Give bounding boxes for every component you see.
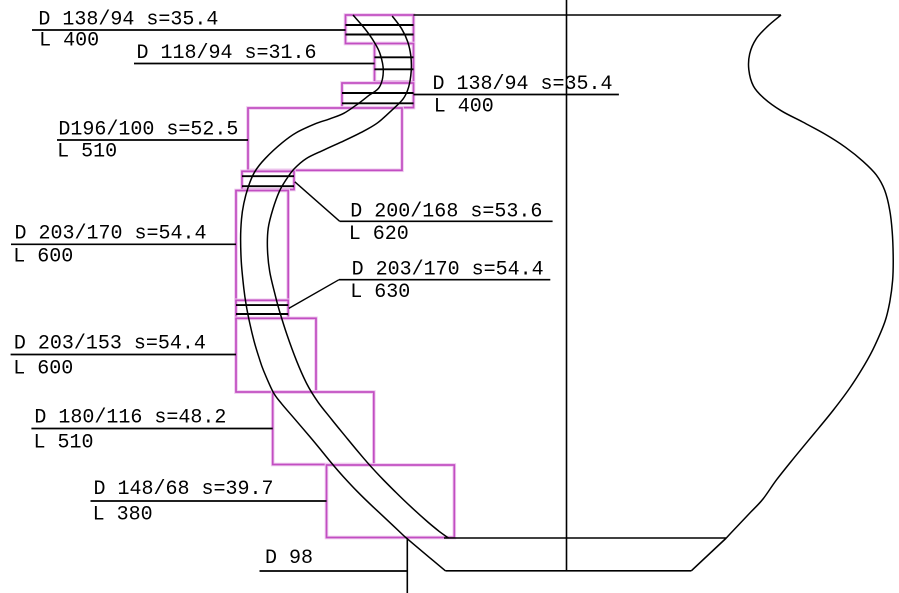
lamination lines blank 4: [242, 176, 294, 186]
blank ring 5 (200/168): [242, 171, 294, 189]
svg-text:D 98: D 98: [265, 547, 313, 570]
leader label2: [134, 63, 375, 65]
leader D203/170-630 underline: [339, 279, 550, 281]
blank ring 6b (203/170 joint): [236, 300, 288, 318]
blank ring 6 (203/170): [236, 191, 288, 301]
svg-text:L 380: L 380: [93, 504, 153, 527]
blank ring 3 (138/94): [342, 83, 414, 108]
svg-text:D 203/170 s=54.4: D 203/170 s=54.4: [15, 223, 207, 246]
lamination lines blank 2: [375, 57, 414, 69]
vase left inner wall curve: [267, 16, 448, 538]
blank ring 4 (196/100): [248, 108, 402, 170]
blank ring 9 (148/68): [327, 465, 455, 538]
svg-text:D 148/68 s=39.7: D 148/68 s=39.7: [94, 478, 274, 501]
svg-text:D196/100 s=52.5: D196/100 s=52.5: [58, 118, 238, 141]
svg-text:D 180/116 s=48.2: D 180/116 s=48.2: [34, 407, 226, 430]
svg-text:D 118/94 s=31.6: D 118/94 s=31.6: [137, 42, 317, 65]
blank ring 8 (180/116): [273, 392, 374, 465]
svg-text:L 510: L 510: [34, 432, 94, 455]
leader label8: [91, 500, 327, 502]
spigot line D98: [406, 538, 408, 593]
vase left outer wall curve: [241, 15, 446, 571]
svg-text:L 630: L 630: [350, 281, 410, 304]
blank ring 1 (138/94): [346, 15, 414, 44]
leader label6: [11, 354, 236, 356]
leader D200/168 diagonal: [295, 182, 340, 222]
base bottom line: [445, 570, 691, 572]
foot chamfer: [691, 538, 726, 571]
lamination lines blank 5: [236, 305, 288, 314]
svg-text:D 200/168 s=53.6: D 200/168 s=53.6: [350, 200, 542, 223]
leader D200/168 underline: [340, 220, 553, 222]
blank ring 2 (118/94): [375, 44, 414, 82]
lamination lines blank 3: [342, 93, 414, 103]
svg-text:L 600: L 600: [13, 358, 73, 381]
svg-text:D 138/94 s=35.4: D 138/94 s=35.4: [433, 73, 613, 96]
base top line: [444, 537, 726, 539]
svg-text:L 600: L 600: [13, 246, 73, 269]
leader D203/170-630 diagonal: [289, 280, 339, 309]
vase right outer profile: [726, 15, 893, 538]
leader label4: [57, 139, 248, 141]
leader label7: [31, 428, 272, 430]
leader label5: [11, 243, 236, 245]
blank ring 7 (203/153): [236, 318, 316, 392]
leader label9: [260, 570, 408, 572]
leader label3: [414, 94, 619, 96]
svg-text:L 400: L 400: [39, 30, 99, 53]
svg-text:L 620: L 620: [349, 223, 409, 246]
svg-text:L 510: L 510: [57, 141, 117, 164]
svg-text:D 203/153 s=54.4: D 203/153 s=54.4: [14, 332, 206, 355]
svg-text:D 203/170 s=54.4: D 203/170 s=54.4: [352, 259, 544, 282]
svg-text:D 138/94 s=35.4: D 138/94 s=35.4: [38, 8, 218, 31]
rim top line: [414, 14, 782, 16]
leader label1: [32, 29, 346, 31]
vertical centerline: [566, 0, 568, 571]
lamination lines blank 1: [346, 25, 414, 35]
svg-text:L 400: L 400: [434, 95, 494, 118]
